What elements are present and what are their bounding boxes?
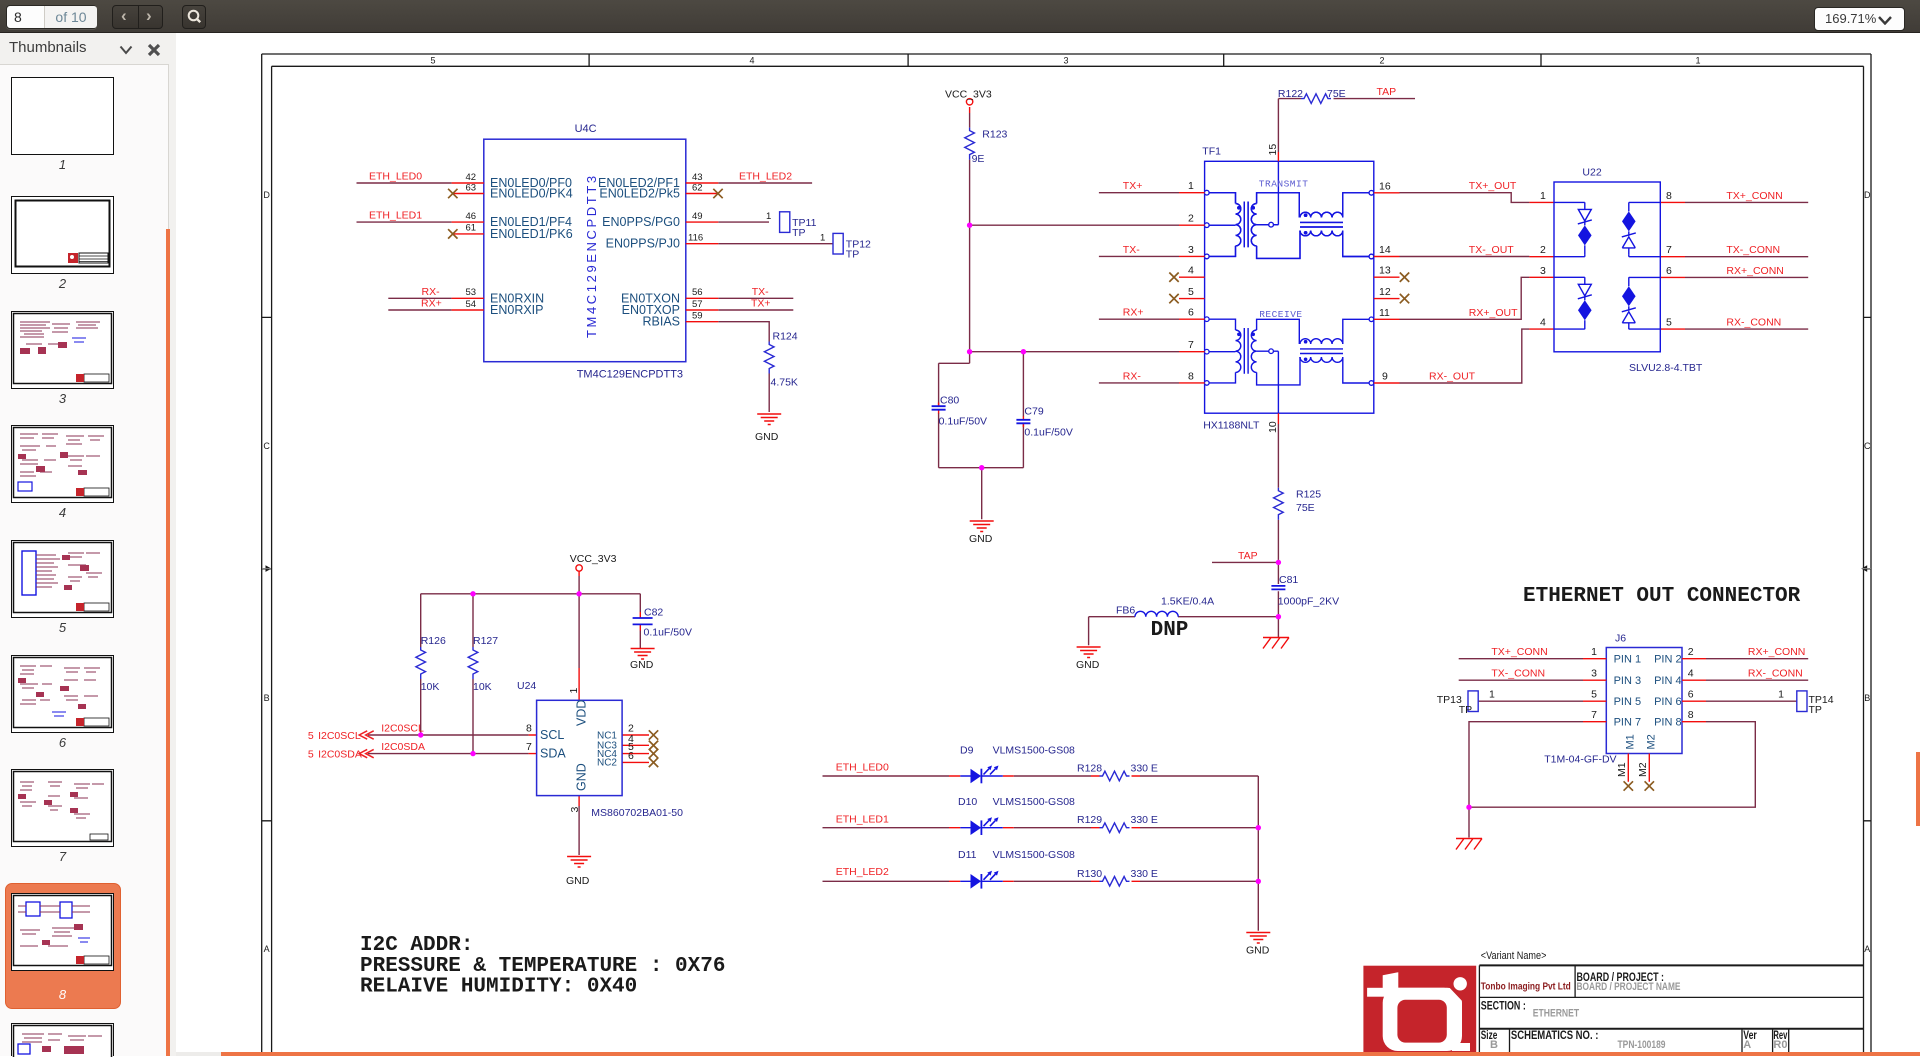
svg-text:RX-: RX- <box>422 286 441 298</box>
svg-text:1: 1 <box>1591 646 1597 658</box>
svg-text:1: 1 <box>1188 180 1194 192</box>
svg-text:5: 5 <box>308 749 314 761</box>
svg-text:SCHEMATICS NO. :: SCHEMATICS NO. : <box>1511 1030 1599 1042</box>
svg-text:16: 16 <box>1379 180 1391 192</box>
svg-text:Tonbo Imaging Pvt Ltd: Tonbo Imaging Pvt Ltd <box>1481 982 1571 993</box>
svg-text:EN0LED0/PK4: EN0LED0/PK4 <box>490 187 573 201</box>
svg-text:VCC_3V3: VCC_3V3 <box>945 89 992 101</box>
svg-text:TX-_OUT: TX-_OUT <box>1469 244 1515 256</box>
svg-text:VLMS1500-GS08: VLMS1500-GS08 <box>993 745 1075 757</box>
svg-text:U4C: U4C <box>575 123 597 135</box>
svg-text:C81: C81 <box>1279 574 1298 586</box>
svg-text:PIN 8: PIN 8 <box>1654 717 1682 729</box>
svg-text:5: 5 <box>1591 689 1597 701</box>
svg-text:3: 3 <box>1063 56 1068 66</box>
svg-text:R0: R0 <box>1773 1039 1787 1051</box>
svg-text:VDD: VDD <box>575 700 589 726</box>
svg-text:ETH_LED0: ETH_LED0 <box>836 762 889 774</box>
svg-text:U24: U24 <box>517 680 536 692</box>
svg-text:<Variant Name>: <Variant Name> <box>1481 950 1547 962</box>
svg-text:63: 63 <box>466 182 477 193</box>
svg-text:D9: D9 <box>960 745 974 757</box>
svg-text:C79: C79 <box>1024 406 1043 418</box>
svg-text:I2C0SCL: I2C0SCL <box>318 730 361 742</box>
svg-text:1: 1 <box>568 688 580 694</box>
svg-text:M2: M2 <box>1637 762 1649 777</box>
svg-text:1: 1 <box>1695 56 1700 66</box>
svg-text:TF1: TF1 <box>1202 146 1221 158</box>
svg-text:9E: 9E <box>972 153 985 165</box>
svg-text:RX+_OUT: RX+_OUT <box>1469 307 1518 319</box>
svg-text:5: 5 <box>1188 286 1194 298</box>
svg-text:59: 59 <box>692 311 703 322</box>
svg-text:C: C <box>263 441 270 451</box>
svg-text:330 E: 330 E <box>1131 814 1158 826</box>
svg-text:R127: R127 <box>473 635 498 647</box>
svg-text:56: 56 <box>692 287 703 298</box>
svg-text:6: 6 <box>628 750 634 762</box>
svg-text:PIN 6: PIN 6 <box>1654 696 1682 708</box>
svg-text:TP: TP <box>792 227 805 239</box>
svg-text:12: 12 <box>1379 286 1391 298</box>
svg-text:PIN 4: PIN 4 <box>1654 675 1682 687</box>
svg-text:EN0LED2/Pk5: EN0LED2/Pk5 <box>599 187 680 201</box>
svg-text:R130: R130 <box>1077 868 1102 880</box>
svg-text:M1: M1 <box>1616 762 1628 777</box>
svg-text:A: A <box>1864 944 1870 954</box>
svg-text:GND: GND <box>969 533 993 545</box>
svg-text:8: 8 <box>1666 190 1672 202</box>
svg-text:SDA: SDA <box>540 747 566 761</box>
svg-text:TRANSMIT: TRANSMIT <box>1259 179 1309 190</box>
svg-text:GND: GND <box>575 763 589 791</box>
svg-text:RECEIVE: RECEIVE <box>1259 309 1302 320</box>
svg-text:ETH_LED2: ETH_LED2 <box>836 866 889 878</box>
svg-text:7: 7 <box>526 741 532 753</box>
svg-text:ETHERNET: ETHERNET <box>1533 1008 1580 1020</box>
svg-text:0.1uF/50V: 0.1uF/50V <box>644 627 692 639</box>
svg-text:1: 1 <box>1489 689 1495 701</box>
svg-text:M1: M1 <box>1625 734 1637 749</box>
svg-text:42: 42 <box>466 172 477 183</box>
svg-text:2: 2 <box>1188 213 1194 225</box>
svg-text:A: A <box>1743 1039 1751 1051</box>
svg-text:R126: R126 <box>421 635 446 647</box>
svg-text:VLMS1500-GS08: VLMS1500-GS08 <box>993 796 1075 808</box>
svg-text:B: B <box>1490 1039 1498 1051</box>
svg-text:A: A <box>264 944 270 954</box>
svg-text:B: B <box>1864 693 1870 703</box>
svg-text:ETHERNET OUT CONNECTOR: ETHERNET OUT CONNECTOR <box>1523 585 1801 608</box>
svg-text:M2: M2 <box>1646 734 1658 749</box>
svg-text:4: 4 <box>1688 668 1694 680</box>
svg-text:7: 7 <box>1591 709 1597 721</box>
svg-text:PIN 3: PIN 3 <box>1614 675 1642 687</box>
svg-text:NC2: NC2 <box>597 758 617 769</box>
svg-text:PIN 2: PIN 2 <box>1654 654 1682 666</box>
svg-text:D11: D11 <box>958 849 977 861</box>
svg-text:TP: TP <box>1459 704 1472 716</box>
svg-text:VLMS1500-GS08: VLMS1500-GS08 <box>993 849 1075 861</box>
svg-text:3: 3 <box>569 807 581 813</box>
svg-text:TX+: TX+ <box>751 298 771 310</box>
svg-text:GND: GND <box>630 659 654 671</box>
svg-text:FB6: FB6 <box>1116 605 1135 617</box>
svg-text:RX-_OUT: RX-_OUT <box>1429 371 1476 383</box>
svg-text:9: 9 <box>1382 371 1388 383</box>
svg-text:PIN 5: PIN 5 <box>1614 696 1642 708</box>
svg-text:SECTION :: SECTION : <box>1481 1001 1526 1013</box>
svg-text:RX-: RX- <box>1123 370 1142 382</box>
svg-text:5: 5 <box>430 56 435 66</box>
svg-text:TX+_OUT: TX+_OUT <box>1469 180 1517 192</box>
svg-text:5: 5 <box>1666 317 1672 329</box>
svg-text:TX+: TX+ <box>1123 180 1143 192</box>
svg-text:0.1uF/50V: 0.1uF/50V <box>939 415 987 427</box>
svg-text:MS860702BA01-50: MS860702BA01-50 <box>591 807 683 819</box>
svg-text:TPN-100189: TPN-100189 <box>1618 1039 1666 1051</box>
svg-text:2: 2 <box>1379 56 1384 66</box>
svg-text:4.75K: 4.75K <box>771 377 798 389</box>
svg-text:U22: U22 <box>1582 167 1601 179</box>
svg-text:57: 57 <box>692 299 703 310</box>
svg-text:RX+: RX+ <box>1123 307 1144 319</box>
svg-text:ETH_LED0: ETH_LED0 <box>369 170 422 182</box>
svg-text:1: 1 <box>1778 689 1784 701</box>
svg-text:RBIAS: RBIAS <box>642 315 680 329</box>
svg-text:53: 53 <box>466 287 477 298</box>
svg-text:15: 15 <box>1267 144 1279 156</box>
svg-text:RX+_CONN: RX+_CONN <box>1726 265 1783 277</box>
svg-text:8: 8 <box>526 723 532 735</box>
svg-text:0.1uF/50V: 0.1uF/50V <box>1024 427 1072 439</box>
svg-text:SLVU2.8-4.TBT: SLVU2.8-4.TBT <box>1629 362 1703 374</box>
svg-text:46: 46 <box>466 211 477 222</box>
svg-text:1: 1 <box>766 211 771 222</box>
svg-text:ETH_LED1: ETH_LED1 <box>836 813 889 825</box>
svg-text:GND: GND <box>566 875 590 887</box>
svg-text:4: 4 <box>1188 265 1194 277</box>
svg-text:14: 14 <box>1379 244 1391 256</box>
svg-text:TX-_CONN: TX-_CONN <box>1726 244 1780 256</box>
svg-text:13: 13 <box>1379 265 1391 277</box>
svg-text:61: 61 <box>466 223 477 234</box>
svg-text:4: 4 <box>749 56 754 66</box>
svg-text:1: 1 <box>1540 190 1546 202</box>
svg-text:EN0LED1/PK6: EN0LED1/PK6 <box>490 227 573 241</box>
svg-text:8: 8 <box>1188 370 1194 382</box>
svg-text:PIN 1: PIN 1 <box>1614 654 1642 666</box>
svg-text:75E: 75E <box>1296 502 1315 514</box>
svg-text:2: 2 <box>1540 244 1546 256</box>
svg-text:R129: R129 <box>1077 814 1102 826</box>
svg-text:EN0RXIP: EN0RXIP <box>490 303 544 317</box>
svg-text:EN0PPS/PJ0: EN0PPS/PJ0 <box>606 237 680 251</box>
svg-text:75E: 75E <box>1327 88 1346 100</box>
svg-text:49: 49 <box>692 211 703 222</box>
svg-text:8: 8 <box>1688 709 1694 721</box>
svg-text:R128: R128 <box>1077 763 1102 775</box>
svg-text:TP: TP <box>1809 704 1822 716</box>
svg-text:TX+_CONN: TX+_CONN <box>1491 646 1547 658</box>
svg-text:ETH_LED2: ETH_LED2 <box>739 170 792 182</box>
svg-text:RX+_CONN: RX+_CONN <box>1748 646 1805 658</box>
svg-text:EN0PPS/PG0: EN0PPS/PG0 <box>602 215 680 229</box>
svg-text:VCC_3V3: VCC_3V3 <box>570 553 617 565</box>
svg-text:3: 3 <box>1188 244 1194 256</box>
svg-text:B: B <box>264 693 270 703</box>
svg-text:BOARD / PROJECT NAME: BOARD / PROJECT NAME <box>1577 981 1681 993</box>
svg-text:330 E: 330 E <box>1131 763 1158 775</box>
svg-text:C: C <box>1864 441 1871 451</box>
svg-text:5: 5 <box>308 730 314 742</box>
svg-text:I2C ADDR:: I2C ADDR: <box>360 934 473 957</box>
svg-text:TX-: TX- <box>752 286 769 298</box>
svg-text:R123: R123 <box>982 129 1007 141</box>
svg-text:6: 6 <box>1666 265 1672 277</box>
svg-text:TX-: TX- <box>1123 244 1140 256</box>
svg-text:TX+_CONN: TX+_CONN <box>1726 190 1782 202</box>
svg-text:6: 6 <box>1188 307 1194 319</box>
svg-text:TAP: TAP <box>1377 86 1397 98</box>
svg-text:R125: R125 <box>1296 489 1321 501</box>
svg-text:T1M-04-GF-DV: T1M-04-GF-DV <box>1544 754 1616 766</box>
svg-text:TX-_CONN: TX-_CONN <box>1491 668 1545 680</box>
svg-text:1: 1 <box>820 233 825 244</box>
svg-text:4: 4 <box>1540 317 1546 329</box>
svg-text:ETH_LED1: ETH_LED1 <box>369 209 422 221</box>
svg-text:D: D <box>263 190 270 200</box>
svg-text:1000pF_2KV: 1000pF_2KV <box>1278 596 1339 608</box>
svg-text:6: 6 <box>1688 689 1694 701</box>
svg-text:10: 10 <box>1267 421 1279 433</box>
svg-text:116: 116 <box>688 233 703 244</box>
svg-text:7: 7 <box>1188 339 1194 351</box>
svg-text:C82: C82 <box>644 607 663 619</box>
svg-text:3: 3 <box>1540 265 1546 277</box>
svg-text:J6: J6 <box>1615 633 1626 645</box>
svg-text:RELAIVE HUMIDITY: 0X40: RELAIVE HUMIDITY: 0X40 <box>360 976 637 999</box>
svg-text:I2C0SDA: I2C0SDA <box>318 749 362 761</box>
svg-text:TP: TP <box>846 249 859 261</box>
svg-text:10K: 10K <box>421 681 440 693</box>
svg-text:D10: D10 <box>958 796 977 808</box>
svg-text:SCL: SCL <box>540 728 564 742</box>
svg-text:10K: 10K <box>473 681 492 693</box>
svg-text:GND: GND <box>755 431 779 443</box>
svg-text:TM4C129ENCPDTT3: TM4C129ENCPDTT3 <box>584 173 599 338</box>
svg-text:54: 54 <box>466 299 477 310</box>
svg-text:2: 2 <box>1688 646 1694 658</box>
svg-text:330 E: 330 E <box>1131 868 1158 880</box>
svg-text:D: D <box>1864 190 1871 200</box>
svg-text:43: 43 <box>692 172 703 183</box>
svg-text:I2C0SCL: I2C0SCL <box>381 723 424 735</box>
svg-text:RX+: RX+ <box>421 298 442 310</box>
svg-text:RX-_CONN: RX-_CONN <box>1726 317 1781 329</box>
svg-text:GND: GND <box>1246 945 1270 957</box>
svg-text:HX1188NLT: HX1188NLT <box>1203 420 1260 432</box>
svg-text:11: 11 <box>1379 307 1390 319</box>
svg-text:DNP: DNP <box>1151 619 1189 642</box>
svg-text:I2C0SDA: I2C0SDA <box>381 741 425 753</box>
svg-text:R122: R122 <box>1278 88 1303 100</box>
svg-text:1.5KE/0.4A: 1.5KE/0.4A <box>1161 596 1214 608</box>
svg-text:R124: R124 <box>773 331 798 343</box>
svg-text:3: 3 <box>1591 668 1597 680</box>
svg-text:PIN 7: PIN 7 <box>1614 717 1642 729</box>
svg-text:C80: C80 <box>940 394 959 406</box>
svg-text:TM4C129ENCPDTT3: TM4C129ENCPDTT3 <box>577 369 683 381</box>
svg-text:7: 7 <box>1666 244 1672 256</box>
svg-text:62: 62 <box>692 182 703 193</box>
svg-text:GND: GND <box>1076 659 1100 671</box>
svg-text:TAP: TAP <box>1238 550 1258 562</box>
svg-text:RX-_CONN: RX-_CONN <box>1748 668 1803 680</box>
